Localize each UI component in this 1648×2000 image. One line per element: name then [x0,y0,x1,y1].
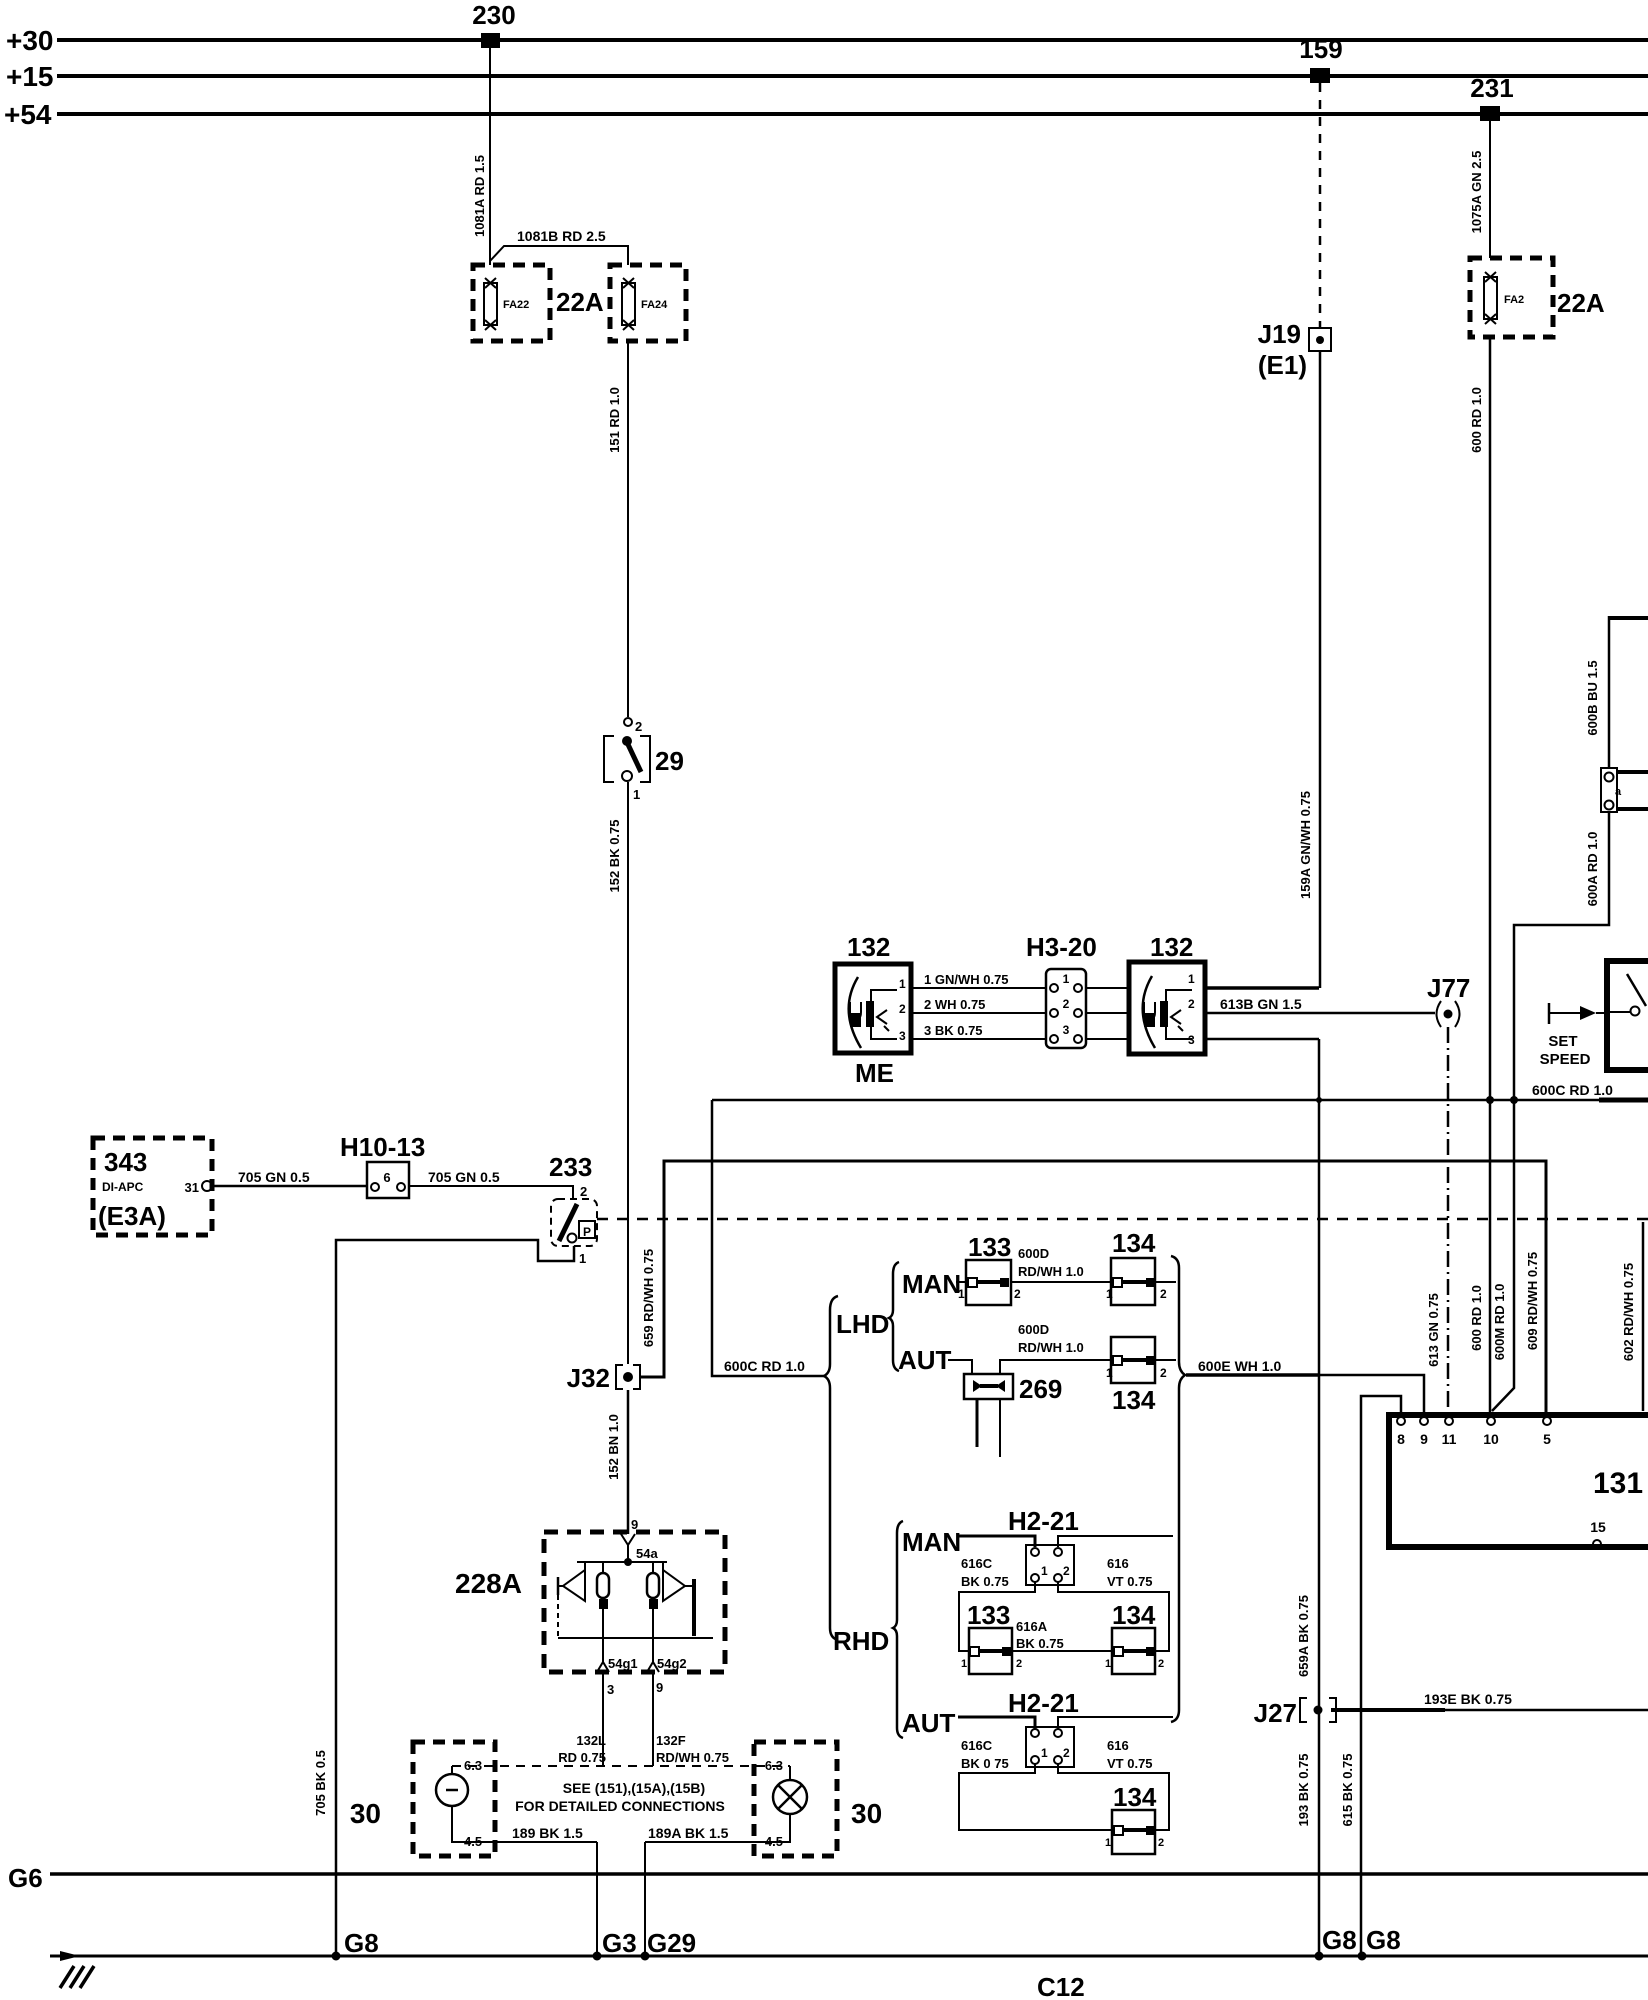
RHD label and brace [833,1521,903,1738]
svg-text:J77: J77 [1427,973,1470,1003]
wire 705 GN 0.5 from H10-13 to switch 233 [409,1169,573,1199]
svg-text:SPEED: SPEED [1540,1051,1591,1068]
control unit 343 DI-APC (E3A) [93,1138,212,1235]
wire 613B GN 1.5 from 132 pin 2 to J77 [1205,996,1435,1013]
svg-text:132: 132 [1150,932,1193,962]
svg-text:134: 134 [1112,1385,1156,1415]
ground point G3 [593,1928,637,1961]
svg-text:1: 1 [1105,1837,1111,1849]
svg-text:1: 1 [961,1658,967,1670]
svg-text:132F: 132F [656,1733,686,1748]
pressure switch 269 [964,1374,1062,1457]
svg-text:659 RD/WH 0.75: 659 RD/WH 0.75 [641,1249,656,1347]
fuse FA2 [1470,258,1553,337]
svg-text:30: 30 [350,1798,381,1829]
wire from 132 pin 3 down (659A BK) [1205,1038,1319,1041]
svg-text:G3: G3 [602,1928,637,1958]
svg-text:193 BK 0.75: 193 BK 0.75 [1296,1754,1311,1827]
wire 151 RD 1.0 from FA24 to switch 29 [607,341,628,717]
svg-text:1081B RD 2.5: 1081B RD 2.5 [517,228,606,244]
svg-text:159: 159 [1299,34,1342,64]
svg-text:54g1: 54g1 [608,1656,638,1671]
svg-text:616C: 616C [961,1738,993,1753]
svg-text:1: 1 [1105,1658,1111,1670]
wires H3-20 to connector 132 (right) [1086,988,1129,1039]
svg-text:BK 0 75: BK 0 75 [961,1756,1009,1771]
svg-text:133: 133 [968,1232,1011,1262]
wire 616C BK 0.75 (RHD MAN) [959,1556,1035,1651]
SET SPEED switch (in 131 control, cut at right) [1607,961,1648,1070]
svg-text:131: 131 [1593,1467,1643,1500]
connector H10-13 pin 6 [340,1132,425,1198]
svg-text:2: 2 [1160,1366,1167,1380]
svg-text:H2-21: H2-21 [1008,1506,1079,1536]
svg-text:600D: 600D [1018,1322,1049,1337]
svg-text:1: 1 [1188,972,1195,986]
svg-text:1 GN/WH 0.75: 1 GN/WH 0.75 [924,972,1009,987]
svg-text:616C: 616C [961,1556,993,1571]
svg-text:RD/WH 1.0: RD/WH 1.0 [1018,1340,1084,1355]
switch 233 (cruise control brake switch) [549,1152,597,1266]
LHD AUT switch 134 [1106,1337,1176,1415]
wire 616A BK 0.75 [1012,1619,1113,1651]
junction J19 (E1) with dashed feed from node 159 [1258,83,1331,380]
fuse FA24 [610,265,686,341]
svg-text:659A BK 0.75: 659A BK 0.75 [1296,1595,1311,1677]
svg-text:C12: C12 [1037,1972,1085,2000]
svg-text:6.3: 6.3 [464,1758,482,1773]
svg-text:FOR DETAILED CONNECTIONS: FOR DETAILED CONNECTIONS [515,1798,725,1814]
svg-text:ME: ME [855,1058,894,1088]
wire 3 BK 0.75 [911,1023,1046,1039]
warning device 30 (left, gauge) [350,1742,597,1856]
wire 600D RD/WH 1.0 (MAN) [1011,1246,1113,1282]
svg-text:15: 15 [1590,1519,1606,1535]
svg-text:600 RD 1.0: 600 RD 1.0 [1469,387,1484,453]
wire from 132 pin 1 to J19 line [1205,986,1319,990]
svg-text:J19: J19 [1258,319,1301,349]
svg-text:1081A RD 1.5: 1081A RD 1.5 [472,155,487,237]
ground points G8 G8 (right) [1315,1925,1401,1961]
svg-text:H10-13: H10-13 [340,1132,425,1162]
wire 189 BK 1.5 to ground G3 [512,1825,597,1955]
svg-text:3: 3 [899,1029,906,1043]
svg-text:RD/WH 1.0: RD/WH 1.0 [1018,1264,1084,1279]
svg-text:8: 8 [1397,1431,1405,1447]
svg-text:AUT: AUT [902,1708,956,1738]
node 230 [472,0,515,48]
wire 2 WH 0.75 [911,997,1046,1013]
svg-text:2: 2 [580,1184,587,1199]
svg-text:2: 2 [1158,1837,1164,1849]
svg-text:22A: 22A [1557,288,1605,318]
svg-text:2: 2 [1063,997,1070,1011]
svg-text:9: 9 [656,1680,663,1695]
RHD MAN switch 134 [1105,1600,1164,1674]
cruise actuator (cut off at right edge) [1609,616,1648,768]
svg-text:609 RD/WH 0.75: 609 RD/WH 0.75 [1525,1252,1540,1350]
svg-text:2: 2 [1063,1564,1070,1578]
RHD AUT switch 134 [1105,1782,1164,1854]
wire 159A GN/WH 0.75 from J19 down [1298,351,1320,988]
svg-text:1: 1 [958,1287,965,1301]
svg-text:705 GN 0.5: 705 GN 0.5 [238,1169,310,1185]
fuse FA22 [473,265,550,341]
svg-text:600B BU 1.5: 600B BU 1.5 [1585,660,1600,735]
LHD MAN switch 134 [1106,1228,1176,1305]
svg-text:VT 0.75: VT 0.75 [1107,1574,1153,1589]
svg-text:4.5: 4.5 [464,1834,482,1849]
svg-text:2: 2 [635,719,642,734]
svg-text:189 BK 1.5: 189 BK 1.5 [512,1825,583,1841]
svg-text:132: 132 [847,932,890,962]
svg-text:1: 1 [1106,1287,1113,1301]
svg-text:G8: G8 [1366,1925,1401,1955]
svg-text:10: 10 [1483,1431,1499,1447]
svg-text:151 RD 1.0: 151 RD 1.0 [607,387,622,453]
svg-text:SEE (151),(15A),(15B): SEE (151),(15A),(15B) [563,1780,705,1796]
svg-text:a: a [1615,786,1622,798]
svg-text:31: 31 [185,1180,199,1195]
svg-text:J27: J27 [1254,1698,1297,1728]
wire 600C RD 1.0 from switch to LHD/RHD variant brace [712,1082,1648,1376]
svg-text:BK 0.75: BK 0.75 [961,1574,1009,1589]
wire 609 RD/WH 0.75 into unit 131 pin 5 [1525,1252,1540,1350]
svg-text:1: 1 [1041,1746,1048,1760]
wire 132F RD/WH 0.75 [653,1672,729,1766]
svg-text:1: 1 [1041,1564,1048,1578]
svg-text:RD/WH 0.75: RD/WH 0.75 [656,1750,729,1765]
connector 132 (right, at cruise stalk) [1129,932,1205,1054]
variant selection brace (LHD/RHD) [824,1296,838,1640]
svg-text:6.3: 6.3 [765,1758,783,1773]
connector H3-20 [1026,932,1097,1048]
wire 600 RD 1.0 from FA2 down to junction and pin 10 [1469,337,1490,1413]
wire 705 GN 0.5 from 343 to H10-13 [212,1169,367,1186]
wire 616 VT 0.75 (RHD MAN) [1058,1556,1169,1651]
svg-text:H2-21: H2-21 [1008,1688,1079,1718]
RHD AUT connector H2-21 [902,1688,1173,1767]
svg-text:G8: G8 [344,1928,379,1958]
svg-text:11: 11 [1442,1431,1457,1447]
svg-text:616: 616 [1107,1556,1129,1571]
wire 1081A RD 1.5 from node 230 to fuse FA22 [472,48,490,265]
wire 705 BK 0.5 from 233 pin 1 to ground rail [313,1240,574,1955]
svg-text:134: 134 [1113,1782,1157,1812]
svg-text:RHD: RHD [833,1626,889,1656]
fuse rating label 22A (right) [1557,288,1605,318]
svg-text:1: 1 [579,1251,586,1266]
svg-text:602 RD/WH 0.75: 602 RD/WH 0.75 [1621,1263,1636,1361]
ground point G29 [641,1928,697,1961]
svg-text:3: 3 [1188,1033,1195,1047]
svg-text:BK 0.75: BK 0.75 [1016,1636,1064,1651]
junction J77 [1427,973,1470,1027]
ground point G8 (left) [332,1928,379,1961]
svg-text:H3-20: H3-20 [1026,932,1097,962]
svg-text:705 BK 0.5: 705 BK 0.5 [313,1750,328,1816]
svg-text:(E3A): (E3A) [98,1201,166,1231]
svg-text:DI-APC: DI-APC [102,1180,144,1194]
svg-text:230: 230 [472,0,515,30]
wire 132L RD 0.75 [558,1672,614,1766]
wire 613 GN 0.75 dash-dot from J77 to unit 131 pin 11 [1426,1027,1448,1413]
wire 152 BN 1.0 from J32 down to pump 228A [606,1390,638,1534]
svg-text:+54: +54 [4,99,52,130]
svg-text:(E1): (E1) [1258,350,1307,380]
node 231 [1470,73,1513,121]
wire 1 GN/WH 0.75 [911,972,1046,988]
svg-text:2: 2 [1016,1658,1022,1670]
svg-text:30: 30 [851,1798,882,1829]
svg-text:1: 1 [1106,1366,1113,1380]
svg-text:29: 29 [655,746,684,776]
svg-text:6: 6 [383,1170,390,1185]
wire 615 BK 0.75 from pin 8 to ground [1340,1396,1401,1955]
svg-text:AUT: AUT [898,1345,952,1375]
svg-text:233: 233 [549,1152,592,1182]
ground rail G6 [8,1863,1648,1893]
svg-text:54g2: 54g2 [657,1656,687,1671]
svg-text:600A RD 1.0: 600A RD 1.0 [1585,832,1600,907]
svg-text:134: 134 [1112,1228,1156,1258]
wire 659 RD/WH 0.75 from J32 up and right [640,1161,1546,1413]
vacuum pump 228A [455,1532,725,1672]
wire 193 BK 0.75 J27 to ground [1296,1754,1311,1827]
SET SPEED actuation arrow [1540,1003,1604,1068]
svg-text:613 GN 0.75: 613 GN 0.75 [1426,1293,1441,1367]
svg-text:193E BK 0.75: 193E BK 0.75 [1424,1691,1512,1707]
power rail +15 [6,61,1648,92]
wire 659A BK 0.75 down to J27 [1296,1039,1319,1955]
svg-text:269: 269 [1019,1374,1062,1404]
svg-text:4.5: 4.5 [765,1834,783,1849]
svg-text:600E WH 1.0: 600E WH 1.0 [1198,1358,1281,1374]
svg-text:2 WH 0.75: 2 WH 0.75 [924,997,985,1012]
svg-text:616A: 616A [1016,1619,1048,1634]
svg-text:G8: G8 [1322,1925,1357,1955]
svg-text:MAN: MAN [902,1527,961,1557]
svg-text:134: 134 [1112,1600,1156,1630]
svg-text:+30: +30 [6,25,54,56]
junction J27 [1254,1698,1336,1728]
svg-text:613B GN 1.5: 613B GN 1.5 [1220,996,1302,1012]
svg-text:P: P [583,1225,591,1239]
svg-text:600C RD 1.0: 600C RD 1.0 [724,1358,805,1374]
wire 193E BK 0.75 from J27 to right edge [1331,1691,1648,1710]
svg-text:J32: J32 [567,1363,610,1393]
svg-text:MAN: MAN [902,1269,961,1299]
svg-text:705 GN 0.5: 705 GN 0.5 [428,1169,500,1185]
svg-text:231: 231 [1470,73,1513,103]
svg-text:G6: G6 [8,1863,43,1893]
svg-text:600M RD 1.0: 600M RD 1.0 [1492,1284,1507,1361]
svg-text:RD 0.75: RD 0.75 [558,1750,606,1765]
junction J32 [567,1363,640,1393]
svg-text:3: 3 [1063,1023,1070,1037]
RHD MAN clutch switch 133 [961,1600,1022,1674]
svg-text:1: 1 [899,977,906,991]
cruise control unit 131 [1386,1412,1648,1550]
LHD label and brace [836,1262,899,1371]
wire 1081B RD 2.5 branch to fuse FA24 [490,228,628,265]
wire 616C BK 0.75 (RHD AUT) [959,1738,1113,1830]
svg-text:2: 2 [1160,1287,1167,1301]
wire 616 VT 0.75 (RHD AUT) [1058,1738,1169,1830]
svg-text:22A: 22A [556,287,604,317]
fuse rating label 22A (left pair) [556,287,604,317]
power rail +54 [4,99,1648,130]
svg-text:FA2: FA2 [1504,294,1524,306]
power rail +30 [6,25,1648,56]
svg-text:132L: 132L [576,1733,606,1748]
wire 152 BK 0.75 from switch 29 down to J32 [607,782,628,1364]
svg-text:+15: +15 [6,61,54,92]
svg-text:343: 343 [104,1147,147,1177]
svg-text:G29: G29 [647,1928,696,1958]
svg-text:1075A GN 2.5: 1075A GN 2.5 [1469,151,1484,234]
svg-text:228A: 228A [455,1568,522,1599]
svg-text:600D: 600D [1018,1246,1049,1261]
svg-text:FA24: FA24 [641,299,668,311]
wire 600E WH 1.0 from variant brace to pin 9 [1186,1358,1424,1417]
svg-text:VT 0.75: VT 0.75 [1107,1756,1153,1771]
LHD MAN clutch switch 133 [902,1232,1021,1305]
wire 189A BK 1.5 to ground G29 [645,1825,729,1955]
svg-text:FA22: FA22 [503,299,529,311]
svg-text:2: 2 [1063,1746,1070,1760]
svg-text:133: 133 [967,1600,1010,1630]
svg-text:1: 1 [633,787,640,802]
svg-text:616: 616 [1107,1738,1129,1753]
svg-text:1: 1 [1063,972,1070,986]
in-line connector a [1601,768,1648,812]
svg-text:3: 3 [607,1682,614,1697]
svg-text:2: 2 [1188,997,1195,1011]
svg-text:5: 5 [1543,1431,1551,1447]
svg-text:2: 2 [899,1002,906,1016]
svg-text:3 BK 0.75: 3 BK 0.75 [924,1023,983,1038]
wire 600B BU 1.5 [1585,660,1600,735]
svg-text:152 BN 1.0: 152 BN 1.0 [606,1414,621,1480]
svg-text:54a: 54a [636,1546,658,1561]
see-other-diagram note [515,1780,725,1814]
svg-text:615 BK 0.75: 615 BK 0.75 [1340,1754,1355,1827]
wire 1075A GN 2.5 from node 231 to fuse FA2 [1469,121,1490,258]
wire 602 RD/WH 0.75 into 131 [1621,1222,1643,1411]
svg-text:SET: SET [1548,1033,1577,1050]
svg-text:600C RD 1.0: 600C RD 1.0 [1532,1082,1613,1098]
wire 600A RD 1.0 from connector a to junction [1514,812,1609,1097]
svg-text:9: 9 [1420,1431,1428,1447]
switch 29 (brake/clutch pedal switch) [604,718,684,802]
warning device 30 (right, lamp) [645,1742,882,1856]
page reference C12 [1037,1972,1085,2000]
svg-text:189A BK 1.5: 189A BK 1.5 [648,1825,729,1841]
LHD AUT row with pressure switch 269 [898,1322,1113,1375]
svg-text:2: 2 [1014,1287,1021,1301]
connector 132 ME (left) [835,932,911,1088]
wire 600M RD 1.0 to pin 10 [1492,1100,1514,1411]
svg-text:152 BK 0.75: 152 BK 0.75 [607,820,622,893]
svg-text:LHD: LHD [836,1309,889,1339]
node 159 [1299,34,1342,83]
svg-text:159A GN/WH 0.75: 159A GN/WH 0.75 [1298,791,1313,899]
dashed link line between warning devices 30 [452,1765,790,1767]
main ground rail with chassis symbol [50,1951,1648,1988]
svg-text:2: 2 [1158,1658,1164,1670]
closing brace to wire 600E [1171,1256,1185,1722]
RHD MAN connector H2-21 [902,1506,1173,1585]
svg-text:600 RD 1.0: 600 RD 1.0 [1469,1285,1484,1351]
dashed vacuum/mechanical link line from 233 P terminal across diagram [597,1218,1648,1221]
